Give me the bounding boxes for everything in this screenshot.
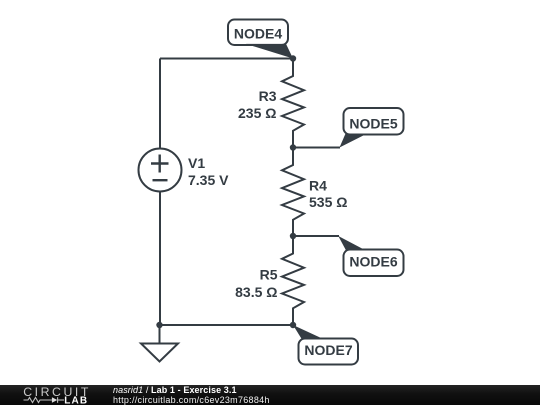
label R3 value — [238, 88, 277, 121]
svg-text:NODE7: NODE7 — [304, 342, 352, 358]
ground — [159, 325, 161, 344]
wire left lower: V1 to bottom wire — [159, 192, 161, 326]
node B junction dot at node5 — [290, 144, 296, 150]
circuitlab logo — [22, 386, 94, 405]
svg-text:7.35 V: 7.35 V — [188, 172, 229, 188]
node A junction dot at node4 — [290, 55, 296, 61]
wire stub node6 — [293, 235, 339, 237]
svg-text:NODE6: NODE6 — [349, 254, 397, 270]
node E junction dot at ground — [156, 322, 162, 328]
flag NODE5 — [340, 108, 404, 148]
label V1 value — [188, 155, 229, 188]
svg-text:535 Ω: 535 Ω — [309, 194, 347, 210]
svg-text:NODE4: NODE4 — [234, 26, 282, 42]
flag NODE6 — [338, 236, 403, 276]
svg-text:NODE5: NODE5 — [349, 116, 397, 132]
footer bar — [0, 385, 540, 405]
resistor R3 — [282, 59, 304, 148]
logo resistor squiggle + diode — [24, 397, 65, 403]
voltage source V1 — [139, 149, 182, 192]
wire left upper: top wire down to V1 — [159, 59, 161, 149]
svg-text:83.5 Ω: 83.5 Ω — [235, 284, 277, 300]
resistor R5 — [282, 236, 304, 325]
flag NODE4 — [228, 20, 293, 59]
wire stub node5 — [293, 147, 340, 149]
node C junction dot at node6 — [290, 233, 296, 239]
svg-text:R5: R5 — [260, 267, 278, 283]
svg-text:LAB: LAB — [64, 396, 88, 405]
svg-text:R3: R3 — [259, 88, 277, 104]
label R4 value — [309, 178, 347, 211]
resistor R4 — [282, 148, 304, 237]
svg-text:235 Ω: 235 Ω — [238, 105, 276, 121]
svg-text:R4: R4 — [309, 178, 327, 194]
svg-text:V1: V1 — [188, 155, 205, 171]
wire bottom: ground column to node7 — [160, 324, 293, 326]
wire top: node4 to source column — [160, 58, 293, 60]
flag NODE7 — [293, 325, 358, 365]
label R5 value — [235, 267, 278, 301]
node D junction dot at node7 — [290, 322, 296, 328]
